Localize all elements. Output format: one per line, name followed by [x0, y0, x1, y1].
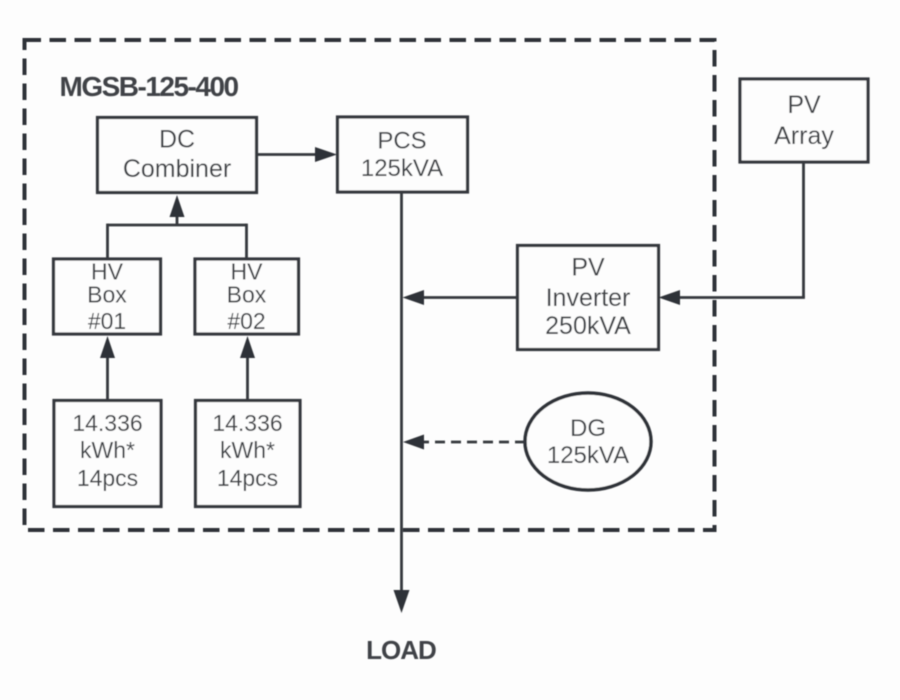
svg-text:PCS: PCS	[377, 128, 426, 155]
svg-text:14.336: 14.336	[72, 410, 142, 436]
wire corner to PV Inverter (arrow left)	[659, 290, 805, 305]
svg-text:kWh*: kWh*	[220, 437, 275, 463]
wire HV branch to DC Combiner (arrow up)	[170, 195, 185, 225]
wire branch drop to HV Box #02	[245, 224, 248, 259]
svg-text:#01: #01	[88, 308, 126, 334]
battery bank 2 (14.336 kWh* 14pcs)	[196, 401, 301, 507]
wire branch drop to HV Box #01	[106, 224, 109, 259]
svg-text:250kVA: 250kVA	[545, 312, 631, 340]
svg-text:DC: DC	[159, 126, 195, 154]
svg-text:kWh*: kWh*	[80, 437, 135, 463]
svg-text:125kVA: 125kVA	[361, 155, 443, 182]
wire PV Array down to corner	[802, 162, 805, 298]
svg-text:14pcs: 14pcs	[77, 465, 138, 491]
enclosure boundary MGSB-125-400 (dashed)	[25, 40, 715, 530]
block HV Box #02	[195, 258, 299, 334]
wire DG to main bus (dashed, arrow left)	[403, 435, 525, 450]
svg-text:Box: Box	[87, 281, 127, 307]
svg-text:DG: DG	[570, 415, 606, 442]
svg-text:Inverter: Inverter	[546, 284, 631, 312]
wire main AC bus from PCS to LOAD (arrow down)	[394, 192, 410, 613]
label LOAD	[366, 635, 436, 665]
block HV Box #01	[54, 258, 161, 334]
svg-text:Array: Array	[774, 122, 834, 150]
svg-text:14.336: 14.336	[212, 410, 282, 436]
wire battery 2 to HV Box #02 (arrow up)	[240, 336, 255, 401]
generator DG 125kVA (ellipse)	[525, 393, 651, 490]
wire DC Combiner to PCS (arrow right)	[257, 147, 338, 162]
label MGSB-125-400	[60, 71, 239, 102]
svg-text:125kVA: 125kVA	[547, 442, 629, 469]
svg-text:14pcs: 14pcs	[217, 465, 278, 491]
wire battery 1 to HV Box #01 (arrow up)	[100, 336, 115, 401]
svg-text:#02: #02	[227, 308, 265, 334]
svg-text:MGSB-125-400: MGSB-125-400	[60, 71, 239, 102]
battery bank 1 (14.336 kWh* 14pcs)	[54, 401, 161, 507]
svg-text:Combiner: Combiner	[123, 155, 231, 183]
block PCS 125kVA	[338, 117, 468, 192]
wire branch horizontal (HV boxes junction)	[108, 224, 247, 227]
block PV Array	[740, 79, 868, 162]
block DC Combiner	[98, 118, 257, 193]
svg-text:Box: Box	[227, 281, 267, 307]
svg-text:PV: PV	[571, 254, 605, 282]
svg-text:LOAD: LOAD	[366, 635, 436, 665]
wire PV Inverter to main bus (arrow left)	[403, 290, 518, 305]
svg-text:PV: PV	[787, 91, 821, 119]
block PV Inverter 250kVA	[518, 246, 659, 350]
